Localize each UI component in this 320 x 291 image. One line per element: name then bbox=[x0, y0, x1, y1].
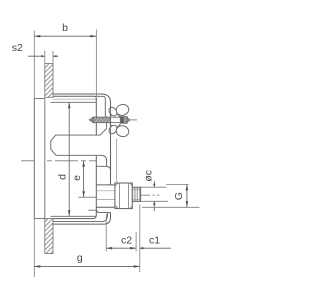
svg-text:G: G bbox=[173, 192, 185, 200]
svg-text:c1: c1 bbox=[149, 235, 160, 247]
svg-text:e: e bbox=[71, 175, 83, 181]
svg-text:d: d bbox=[56, 174, 68, 180]
svg-text:g: g bbox=[77, 252, 83, 264]
svg-text:øc: øc bbox=[143, 170, 155, 182]
svg-text:s2: s2 bbox=[12, 42, 23, 54]
svg-text:c2: c2 bbox=[121, 235, 132, 247]
svg-text:b: b bbox=[62, 22, 68, 34]
